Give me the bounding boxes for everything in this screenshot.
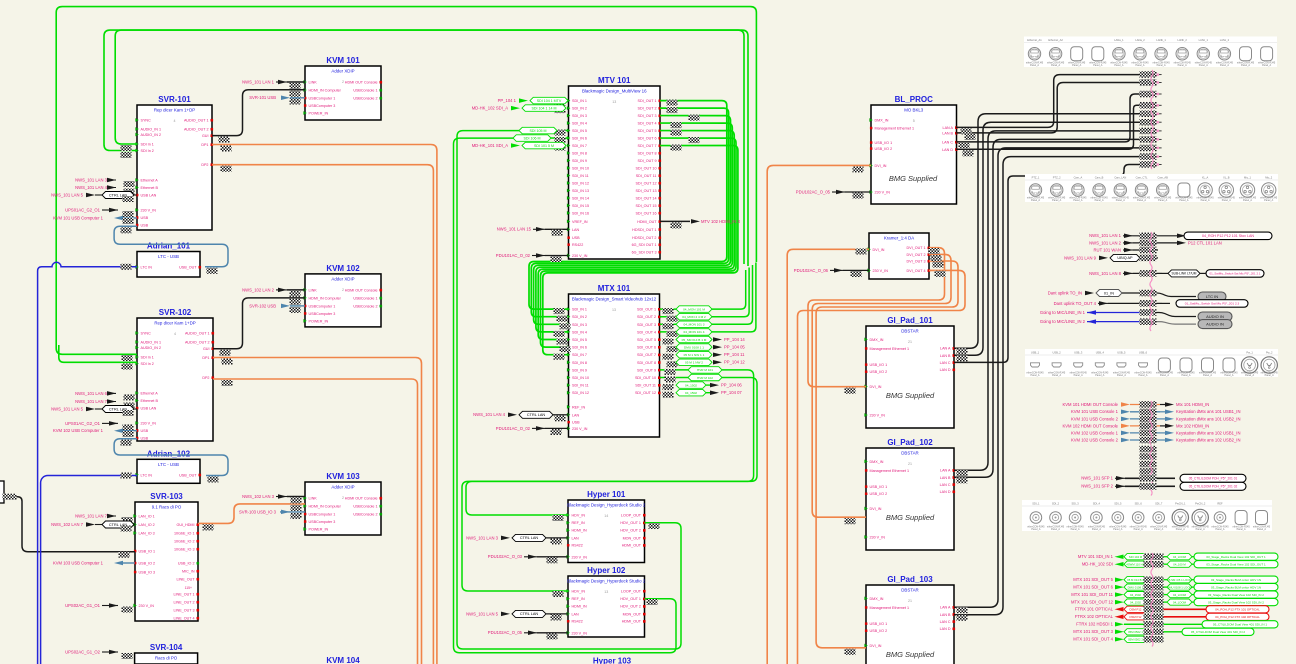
svg-text:NWS_101 SFP 2: NWS_101 SFP 2	[1081, 484, 1113, 489]
svg-text:Panel_A: Panel_A	[1095, 199, 1104, 202]
svg-text:MTX 101 SDI_OUT 6: MTX 101 SDI_OUT 6	[1073, 585, 1113, 590]
wire RUT row	[1133, 249, 1158, 251]
wire MTX101 SDI_OUT12 stub	[706, 392, 711, 394]
svg-text:230 V_IN: 230 V_IN	[875, 191, 891, 195]
svg-text:DVI_IN: DVI_IN	[870, 507, 882, 511]
svg-text:Panel_A: Panel_A	[1074, 374, 1083, 377]
svg-text:SDI_3: SDI_3	[1071, 502, 1079, 506]
net pill mid MTX 101 SDI_OUT 11	[1167, 592, 1192, 598]
svg-text:SDI_IN 4: SDI_IN 4	[572, 122, 587, 126]
cable mark SVR-101 Ethernet B	[124, 189, 135, 195]
cable mark SVR-101 Ethernet A	[124, 181, 135, 187]
svg-text:PDU102AC_O_05: PDU102AC_O_05	[488, 630, 523, 635]
arrow label PP_104 14	[713, 337, 722, 342]
net label MTX101 SDI_OUT6	[676, 344, 712, 351]
wire Hyper101 HDV_OUT1 to MTV101 SDI_IN5	[457, 131, 681, 649]
svg-text:Panel_A: Panel_A	[1178, 64, 1187, 67]
svg-text:9.1 Racs di PO: 9.1 Racs di PO	[152, 505, 182, 510]
cable mark MTV101 SDI_IN2	[555, 107, 566, 113]
arrow label Keystation dMtx ans 102 USB2_IN	[1165, 438, 1174, 443]
cable mark Kramer DVI_OUT4	[935, 271, 946, 277]
cable mark MTX 101 SDI_OUT 4	[1144, 636, 1164, 643]
svg-text:LINE_OUT 3: LINE_OUT 3	[173, 609, 194, 613]
cable mark FTRX 101 OPTICAL	[1144, 606, 1164, 613]
svg-text:SDI_OUT 10: SDI_OUT 10	[635, 167, 656, 171]
net pill left MD-HK_102 SDI	[1124, 561, 1147, 567]
svg-text:Blackmagic Design_Hyperdeck St: Blackmagic Design_Hyperdeck Studio 2	[567, 503, 646, 508]
wire Hyper101 LAN stub	[546, 537, 568, 539]
svg-text:LAN C: LAN C	[940, 361, 951, 365]
cable mark SVR-101 230V	[123, 211, 134, 217]
svg-text:230 V_IN: 230 V_IN	[870, 414, 886, 418]
svg-text:2: 2	[342, 288, 344, 292]
svg-text:SDI_IN 10: SDI_IN 10	[572, 376, 589, 380]
svg-text:USBConsole 1: USBConsole 1	[353, 505, 377, 509]
svg-text:USB_I/O 1: USB_I/O 1	[870, 485, 888, 489]
svg-text:CTRL LAN: CTRL LAN	[527, 413, 545, 417]
gray pill LTC IN	[1198, 292, 1226, 301]
cable mark MTV101 SDI_IN1	[555, 100, 566, 106]
svg-text:PDU102AC_O_06: PDU102AC_O_06	[794, 268, 829, 273]
svg-text:POWER_IN: POWER_IN	[309, 528, 329, 532]
net pill right 04_POH_P12 FTX 101 OPTICAL	[1206, 606, 1269, 613]
svg-text:SDI_IN 8: SDI_IN 8	[572, 361, 587, 365]
svg-text:Panel_A: Panel_A	[1134, 528, 1143, 531]
svg-text:Ethernet A: Ethernet A	[141, 179, 159, 183]
wire Going to MIC/LINE_IN 2 cont	[1140, 322, 1196, 325]
svg-text:UPS01AC_G2_O1: UPS01AC_G2_O1	[65, 421, 101, 426]
cable mark LAN row1	[1140, 233, 1157, 240]
svg-text:230 V_IN: 230 V_IN	[870, 536, 886, 540]
svg-text:Panel_A: Panel_A	[1215, 528, 1224, 531]
server SVR-104 (cut at bottom)	[135, 653, 198, 664]
svg-text:Hyper 101: Hyper 101	[587, 490, 626, 499]
pink sleeve marks chain column	[1150, 446, 1152, 496]
svg-text:MO BKL3: MO BKL3	[904, 108, 924, 113]
svg-text:SVR-101 USB: SVR-101 USB	[249, 95, 276, 100]
wire SFP 2	[1125, 485, 1160, 487]
svg-text:MD-HK_102 SDI: MD-HK_102 SDI	[1082, 562, 1113, 567]
svg-text:LAN B: LAN B	[942, 132, 953, 136]
svg-text:KVM 102: KVM 102	[326, 264, 360, 273]
wire BL_PROC LAN A to patch row1	[956, 75, 1140, 128]
cable mark GI_Pad_102 DVI_IN	[845, 518, 856, 524]
svg-text:USB: USB	[572, 421, 580, 425]
wire Adrian_102 LTC IN from left	[41, 476, 137, 664]
KVM extender KVM 102	[305, 274, 381, 327]
svg-text:POWER_IN: POWER_IN	[309, 112, 329, 116]
cable mark SVR-104 230V	[122, 653, 133, 659]
svg-text:SDI_IN 7: SDI_IN 7	[572, 353, 587, 357]
svg-text:NWS_101 LAN 6: NWS_101 LAN 6	[75, 391, 108, 396]
svg-text:Panel_A: Panel_A	[1072, 64, 1081, 67]
wire to satmic pill	[1162, 302, 1170, 304]
svg-text:Panel_A: Panel_A	[1073, 199, 1082, 202]
svg-text:DP2: DP2	[201, 163, 208, 167]
wire MTX101 SDI_OUT4 upward	[660, 263, 756, 332]
wire SVR-101 DP2 down right side	[212, 165, 433, 664]
net pill right 03_Stage_Racks BLM onitor HDV 1N	[1194, 584, 1278, 591]
svg-text:Panel_A: Panel_A	[1224, 374, 1233, 377]
wire MTX 101 SDI_OUT 12 seg2	[1192, 601, 1194, 603]
cable mark MTV101 SDI_OUT5	[671, 130, 682, 136]
svg-text:Panel_A: Panel_A	[1052, 199, 1061, 202]
svg-text:Blackmagic Design_Hyperdeck St: Blackmagic Design_Hyperdeck Studio 2	[567, 579, 646, 584]
net pill 05_CTILILDOM POH 2	[1180, 482, 1246, 490]
wire SFP 1 right	[1160, 477, 1175, 479]
svg-text:DMX_IN: DMX_IN	[875, 119, 889, 123]
svg-text:BMG Supplied: BMG Supplied	[886, 513, 935, 522]
cable mark KVM 101 USB Console 2	[1140, 416, 1157, 423]
svg-text:Panel_A: Panel_A	[1157, 64, 1166, 67]
wire MTV 101 SDI_IN 1 seg2	[1192, 556, 1194, 558]
cable mark MTV101 SDI_IN7	[555, 145, 566, 151]
net pill left MTX 101 SDI_OUT 12	[1124, 599, 1147, 605]
svg-text:SDI_6: SDI_6	[1135, 502, 1143, 506]
svg-text:DVI_OUT 3: DVI_OUT 3	[907, 260, 926, 264]
cable mark Kramer DVI_OUT3	[933, 262, 944, 268]
svg-text:USB_I/O 2: USB_I/O 2	[875, 147, 893, 151]
svg-text:USBComputer 3: USBComputer 3	[309, 104, 336, 108]
svg-text:HDMI_IN Computer: HDMI_IN Computer	[309, 505, 342, 509]
cable mark SVR-103 LAN_IO2	[121, 526, 132, 532]
cable mark LAN row8	[1140, 270, 1157, 277]
wire SVR-103 GUI_HDMI to KVM103 HDMI_IN	[198, 504, 305, 524]
cable mark MTX101 LAN	[555, 415, 566, 421]
svg-text:USB_I/O 1: USB_I/O 1	[870, 622, 888, 626]
wire MTX101 SDI_OUT9 to Hyper101 HDV_IN	[466, 370, 754, 515]
net pill right 03_Stage_Racks Dual View 102 SDI_OUT 1	[1194, 561, 1278, 568]
cable mark KVM102 LINK	[290, 291, 301, 297]
svg-text:SDI_OUT 6: SDI_OUT 6	[637, 346, 656, 350]
svg-text:SDI 104 M: SDI 104 M	[1129, 555, 1143, 559]
svg-text:LANb_1: LANb_1	[1156, 38, 1166, 42]
cable mark Hyper102 HDV_IN	[553, 591, 564, 597]
svg-text:SDI 105 M: SDI 105 M	[530, 129, 547, 133]
svg-text:SDI_OUT 15: SDI_OUT 15	[635, 204, 656, 208]
svg-text:RS422: RS422	[572, 620, 583, 624]
net label MTX101 SDI_OUT2	[676, 313, 712, 320]
cable mark patch row7	[1140, 128, 1157, 135]
cable mark KVM103 HDMI_IN	[291, 505, 302, 511]
svg-text:Hyper 103: Hyper 103	[593, 657, 632, 664]
wire MTX 101 SDI_OUT 5 seg1	[1161, 579, 1167, 581]
recorder Hyper 101	[568, 500, 645, 563]
wire SVR-103 USB tag stub	[280, 511, 305, 513]
svg-text:GUI_HDMI: GUI_HDMI	[176, 523, 194, 527]
svg-text:Going to MIC/LINE_IN 1: Going to MIC/LINE_IN 1	[1040, 310, 1086, 315]
wire CTRL LAN pill to SVR-103 LAN_IO2	[134, 524, 135, 526]
svg-text:MTX 101: MTX 101	[598, 284, 631, 293]
cable mark Kramer DVI_OUT2	[931, 255, 942, 261]
svg-text:DBSTAR: DBSTAR	[901, 588, 918, 593]
net label PP_104 into MTV101 SDI_IN1	[530, 97, 568, 104]
KVM extender KVM 103	[305, 482, 381, 535]
cable mark SVR-102 USB LAN	[123, 410, 134, 416]
svg-text:LAN: LAN	[572, 228, 580, 232]
svg-text:03_Stage_Racks Dual View 102 S: 03_Stage_Racks Dual View 102 SDI_OUT 1	[1206, 563, 1266, 567]
svg-text:10GbE_IO 2: 10GbE_IO 2	[174, 540, 195, 544]
video router MTX 101	[569, 294, 660, 437]
svg-text:115+: 115+	[185, 586, 192, 590]
svg-text:SDI_5: SDI_5	[1114, 502, 1122, 506]
svg-text:Keystation dMtx ans 101 USB1_I: Keystation dMtx ans 101 USB1_IN	[1176, 409, 1240, 414]
wire KVM 101 USB Console 1	[1130, 411, 1160, 413]
svg-text:Management Ethernet 1: Management Ethernet 1	[870, 347, 910, 351]
svg-text:PP_104 07: PP_104 07	[721, 390, 742, 395]
svg-text:DVI_IN: DVI_IN	[875, 164, 887, 168]
wire NWS LAN2 to KVM102 LINK	[287, 289, 305, 291]
svg-text:NWS_101 LAN 9: NWS_101 LAN 9	[1064, 255, 1097, 260]
svg-text:05_CTILILDOM POH_P5*_201 01: 05_CTILILDOM POH_P5*_201 01	[1189, 477, 1238, 481]
svg-text:03_Stage_Racks BLM onitor HDV: 03_Stage_Racks BLM onitor HDV 1N	[1211, 578, 1261, 582]
svg-text:LAN B: LAN B	[940, 476, 951, 480]
wire MTX 101 SDI_OUT 11 seg1	[1161, 594, 1167, 596]
svg-text:AUDIO IN: AUDIO IN	[1206, 321, 1224, 326]
svg-text:Mtx 102 HDMI_IN: Mtx 102 HDMI_IN	[1176, 423, 1209, 428]
svg-text:SDI_OUT 4: SDI_OUT 4	[637, 330, 656, 334]
svg-text:LAN D: LAN D	[940, 490, 951, 494]
svg-text:HDMI OUT Console: HDMI OUT Console	[345, 288, 378, 292]
svg-text:USB_4: USB_4	[1096, 351, 1105, 355]
svg-text:230 V_IN: 230 V_IN	[572, 631, 588, 635]
svg-text:PwCN_1: PwCN_1	[1175, 502, 1186, 506]
svg-text:LAN A: LAN A	[940, 469, 951, 473]
svg-text:Management Ethernet 1: Management Ethernet 1	[875, 127, 915, 131]
svg-text:SVR-104: SVR-104	[150, 643, 183, 652]
svg-text:04_POH_P12 FTX 101 OPTICAL: 04_POH_P12 FTX 101 OPTICAL	[1215, 608, 1260, 612]
cable mark MTX101 SDI_OUT10	[665, 377, 676, 383]
svg-text:13: 13	[612, 100, 616, 104]
svg-text:05 M 1 NW 2: 05 M 1 NW 2	[685, 361, 703, 365]
svg-text:Panel_A: Panel_A	[1199, 64, 1208, 67]
wire BL_PROC DVI_IN from below	[767, 165, 871, 664]
wire Kramer DVI_OUT2 to GI_Pad_102 DVI_IN	[812, 254, 951, 517]
svg-text:Ethernet B: Ethernet B	[141, 399, 159, 403]
svg-text:USB LAN: USB LAN	[141, 194, 157, 198]
svg-text:USB_IO 3: USB_IO 3	[139, 571, 156, 575]
cable mark SVR-101 SDI In 2	[121, 152, 132, 158]
svg-text:SDI_OUT 9: SDI_OUT 9	[637, 368, 656, 372]
wire MTX101 SDI_OUT3 upward	[660, 265, 753, 324]
svg-text:4: 4	[174, 119, 176, 123]
cable mark KVM102 HDMI_IN	[290, 299, 301, 305]
cable mark MTX 101 SDI_OUT 11	[1144, 591, 1164, 598]
svg-text:SDI_IN 10: SDI_IN 10	[572, 167, 589, 171]
svg-text:Ethernet_A2: Ethernet_A2	[1048, 38, 1063, 42]
svg-text:FTRX 102 OPTICAL: FTRX 102 OPTICAL	[1075, 614, 1114, 619]
svg-text:01_SatMic_Switch Sat Mic P5*_2: 01_SatMic_Switch Sat Mic P5*_201 2.1	[1210, 272, 1261, 276]
svg-text:NWS_102 LAN 3: NWS_102 LAN 3	[242, 494, 275, 499]
svg-text:HDV_OUT 1: HDV_OUT 1	[620, 597, 641, 601]
wire MTX 101 SDI_OUT 3 long	[1147, 631, 1182, 633]
svg-text:04_MON 101 4: 04_MON 101 4	[684, 330, 705, 334]
svg-text:KVM 103 USB Computer 1: KVM 103 USB Computer 1	[53, 560, 104, 565]
svg-text:SDI_2: SDI_2	[1052, 502, 1060, 506]
wire FTRX 102 HDSDI 1 long	[1124, 623, 1202, 625]
svg-text:MTX 101 SDI_OUT 5: MTX 101 SDI_OUT 5	[1073, 577, 1113, 582]
svg-text:Panel_A: Panel_A	[1154, 528, 1163, 531]
svg-text:NWS_102 LAN 7: NWS_102 LAN 7	[51, 522, 84, 527]
svg-text:KVM 102 USB Console 2: KVM 102 USB Console 2	[1071, 437, 1119, 442]
wire BL_PROC LAN D to patch row4	[956, 105, 1140, 149]
svg-text:DP1: DP1	[201, 143, 208, 147]
arrow label PP_104 07	[710, 390, 719, 395]
cable mark SVR-102 USB	[121, 440, 132, 446]
svg-text:KVM 101 USB Console 2: KVM 101 USB Console 2	[1071, 416, 1119, 421]
wire SVR-101 GUI to KVM101 HDMI_IN	[212, 90, 305, 136]
svg-text:KVM 104: KVM 104	[326, 656, 360, 664]
cable mark BL_PROC LAN B	[965, 134, 976, 140]
svg-text:05 M 1 NW 1 1: 05 M 1 NW 1 1	[684, 353, 705, 357]
svg-text:5: 5	[913, 119, 915, 123]
svg-text:HVR M 101: HVR M 101	[697, 368, 713, 372]
svg-text:Panel_A: Panel_A	[1095, 374, 1104, 377]
cable mark patch row6	[1140, 119, 1157, 126]
wire BL_PROC 230V stub	[845, 191, 871, 193]
cable mark patch row2	[1140, 79, 1157, 86]
connector panel strip 2 (XLR row)	[1025, 174, 1278, 202]
cable mark SVR-102 USB top	[123, 431, 134, 437]
svg-text:21: 21	[908, 340, 912, 344]
wire KVM103 USB computer stub	[123, 562, 135, 564]
svg-text:USBConsole 2: USBConsole 2	[353, 97, 377, 101]
svg-text:CTRL LAN: CTRL LAN	[520, 612, 538, 616]
svg-text:LAN B: LAN B	[940, 613, 951, 617]
pin mark patch row10	[1157, 155, 1159, 157]
cable mark SVR-102 SDI In 1	[122, 355, 133, 361]
svg-text:04_MON 101 M: 04_MON 101 M	[683, 307, 705, 311]
cable mark SVR-102 Ethernet 0	[124, 394, 135, 400]
svg-text:HDV_IN: HDV_IN	[572, 514, 586, 518]
svg-text:Panel_A: Panel_A	[1052, 374, 1061, 377]
svg-text:GUI: GUI	[202, 134, 209, 138]
cable mark Hyper101 LAN	[551, 538, 562, 544]
cable mark SVR-101 DP2	[221, 166, 232, 172]
svg-text:Kramer_1:4 DA: Kramer_1:4 DA	[884, 236, 914, 241]
svg-text:SDI_OUT 3: SDI_OUT 3	[637, 323, 656, 327]
svg-text:MTV 102 HDMI_IN 3: MTV 102 HDMI_IN 3	[701, 219, 741, 224]
svg-text:Panel_A: Panel_A	[1245, 374, 1254, 377]
svg-text:AUDIO_IN 1: AUDIO_IN 1	[141, 128, 162, 132]
cable mark MTX101 SDI_OUT12	[663, 392, 674, 398]
wire MD-HK_102 SDI seg2	[1192, 563, 1194, 565]
svg-text:21: 21	[908, 599, 912, 603]
svg-text:LTC IN: LTC IN	[141, 266, 153, 270]
svg-text:SDI In 2: SDI In 2	[141, 362, 154, 366]
cable mark MTV101 SDI_OUT7	[671, 145, 682, 151]
wire Kramer DVI_IN from below	[787, 249, 869, 664]
svg-text:Panel_A: Panel_A	[1203, 374, 1212, 377]
svg-text:SDI_OUT 3: SDI_OUT 3	[638, 114, 657, 118]
svg-text:LINE_OUT 1: LINE_OUT 1	[173, 593, 194, 597]
svg-text:04_ROH P12 P12 101 Stox LAN: 04_ROH P12 P12 101 Stox LAN	[1202, 234, 1254, 238]
cable mark MTX101 SDI_OUT4	[667, 331, 678, 337]
svg-text:BMG Supplied: BMG Supplied	[889, 174, 938, 183]
svg-text:SDI_OUT 14: SDI_OUT 14	[635, 196, 656, 200]
server SVR-102	[137, 318, 213, 441]
svg-text:03_Stage_Racks Dual View 102 S: 03_Stage_Racks Dual View 102 SDI_IN 2	[1208, 600, 1264, 604]
svg-text:GUI: GUI	[203, 347, 210, 351]
cable mark SVR-102 GUI	[220, 350, 231, 356]
svg-text:CTRL LAN: CTRL LAN	[520, 536, 538, 540]
svg-text:PDU101AC_O_02: PDU101AC_O_02	[496, 426, 531, 431]
wire GI_Pad LAN to patch row6	[954, 122, 1140, 355]
net label MTX101 SDI_OUT8	[676, 359, 712, 366]
svg-text:USBComputer 1: USBComputer 1	[309, 97, 336, 101]
cable mark Adrian_101 USB_OUT	[207, 268, 218, 274]
cable mark GI_Pad_103 LAN B	[957, 615, 968, 621]
recorder Hyper 102	[568, 576, 645, 637]
pink sleeve marks top right column	[1151, 70, 1153, 169]
svg-text:USB_IO 2: USB_IO 2	[178, 562, 195, 566]
net pill UBIQ AP	[1110, 254, 1140, 261]
svg-text:KVM 101 USB Computer 1: KVM 101 USB Computer 1	[53, 215, 104, 220]
svg-text:MON_OUT: MON_OUT	[623, 536, 642, 540]
svg-text:USB_3: USB_3	[1074, 351, 1083, 355]
svg-text:PP_104 06: PP_104 06	[721, 383, 742, 388]
cable chain mark y471.5	[1140, 468, 1157, 475]
svg-text:DVI_IN: DVI_IN	[873, 248, 885, 252]
svg-text:AUDIO_IN 1: AUDIO_IN 1	[141, 341, 162, 345]
svg-text:USBComputer 1: USBComputer 1	[309, 304, 336, 308]
wire FTRX 102 HDSDI 1 seg0	[1124, 623, 1144, 625]
svg-text:VREF_IN: VREF_IN	[572, 220, 588, 224]
cable mark MTX101 SDI_OUT1	[663, 308, 674, 314]
svg-text:NWS_101 LAN 2: NWS_101 LAN 2	[1089, 240, 1122, 245]
svg-text:Panel_A: Panel_A	[1117, 374, 1126, 377]
svg-text:USBConsole 2: USBConsole 2	[353, 513, 377, 517]
svg-text:SDI 101 5 M: SDI 101 5 M	[534, 144, 554, 148]
svg-text:Panel_A: Panel_A	[1138, 374, 1147, 377]
svg-text:PP_104 11: PP_104 11	[724, 352, 745, 357]
cable mark SVR-103 GUI_HDMI	[203, 524, 214, 530]
wire MTV101 SDI_OUT2 to MTX101 SDI_IN2	[531, 108, 728, 317]
svg-text:NWS_102 LAN 2: NWS_102 LAN 2	[242, 287, 275, 292]
svg-text:DVI_IN: DVI_IN	[870, 644, 882, 648]
wire KVM101 USB computer stub	[123, 217, 137, 219]
svg-text:2: 2	[342, 496, 344, 500]
svg-text:KVM 101: KVM 101	[326, 56, 360, 65]
cable mark KVM101 USBComputer1	[290, 99, 301, 105]
cable mark SVR-101 USB top	[123, 218, 134, 224]
cable mark GI_Pad_101 DVI_IN	[845, 388, 856, 394]
svg-text:MTX 101 SDI_OUT 4: MTX 101 SDI_OUT 4	[1073, 637, 1113, 642]
cable mark SFP 1	[1140, 475, 1157, 482]
cable mark MTX 101 SDI_OUT 5	[1144, 577, 1164, 584]
svg-text:LINE_OUT 2: LINE_OUT 2	[173, 601, 194, 605]
pin mark patch row2	[1157, 81, 1159, 83]
svg-text:04_1502: 04_1502	[685, 383, 697, 387]
svg-text:USBComputer 3: USBComputer 3	[309, 520, 336, 524]
svg-text:AUDIO IN: AUDIO IN	[1206, 314, 1224, 319]
wire MTV101 SDI_OUT1 to MTX101 SDI_IN1	[529, 101, 727, 310]
pin mark patch row5	[1157, 113, 1159, 115]
svg-text:DMX_IN: DMX_IN	[870, 338, 884, 342]
svg-text:Panel_A: Panel_A	[1092, 528, 1101, 531]
svg-text:PTZ_1: PTZ_1	[1032, 176, 1040, 180]
net pill right 03_Stage_Racks BLM onitor HDV 1N	[1194, 576, 1278, 583]
svg-text:UPS02AC_G1_O1: UPS02AC_G1_O1	[65, 603, 101, 608]
svg-text:USBConsole 1: USBConsole 1	[353, 89, 377, 93]
wire KVM 102 HDMI OUT Console	[1130, 425, 1160, 427]
wire Hyper101 230V stub	[537, 556, 568, 558]
svg-text:USB_OUT: USB_OUT	[179, 266, 197, 270]
svg-text:SDI_IN 16: SDI_IN 16	[572, 211, 589, 215]
svg-text:SDI_IN 3: SDI_IN 3	[572, 323, 587, 327]
cable mark patch row8	[1140, 136, 1157, 143]
cable mark Hyper101 230V	[547, 557, 558, 563]
